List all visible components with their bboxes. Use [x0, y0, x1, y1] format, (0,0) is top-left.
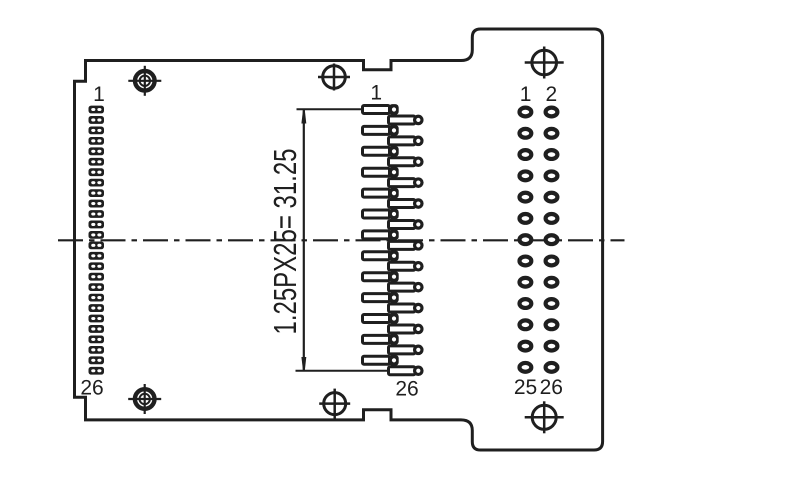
svg-text:25: 25: [514, 376, 537, 399]
svg-text:1: 1: [370, 82, 382, 105]
svg-text:1: 1: [520, 83, 532, 106]
svg-text:1.25PX25= 31.25: 1.25PX25= 31.25: [267, 149, 303, 335]
svg-text:26: 26: [80, 377, 103, 400]
svg-text:2: 2: [546, 83, 558, 106]
svg-text:26: 26: [395, 378, 418, 401]
svg-text:26: 26: [540, 376, 563, 399]
svg-text:1: 1: [93, 83, 105, 106]
